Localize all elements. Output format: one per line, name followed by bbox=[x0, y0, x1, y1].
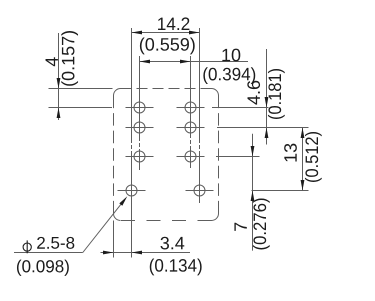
arrow 4 top bbox=[57, 78, 61, 89]
leader shelf bbox=[14, 252, 83, 254]
arrow 4.6 top bbox=[265, 97, 269, 108]
arrow 13 bottom bbox=[301, 180, 305, 191]
label 7 (rotated) bbox=[234, 223, 246, 231]
dim 13 line bbox=[302, 128, 304, 191]
hole P4 row2 right bbox=[177, 122, 205, 133]
dim 3.4 extension left bbox=[113, 221, 115, 258]
relay body outline (dashed rounded rect) bbox=[114, 89, 219, 221]
label (0.157) (rotated) bbox=[61, 31, 78, 86]
dim 7 line bbox=[252, 134, 254, 251]
arrow 10 right bbox=[180, 60, 191, 64]
row3 right extension bbox=[216, 156, 260, 158]
label (0.394) bbox=[203, 67, 255, 84]
arrow 10 left bbox=[140, 60, 151, 64]
dim 4 line bbox=[58, 33, 60, 120]
label (0.181) (rotated) bbox=[268, 69, 285, 119]
arrow 7 bottom bbox=[251, 191, 255, 202]
label 3.4 bbox=[160, 237, 184, 250]
hole P6 row3 right bbox=[177, 151, 205, 162]
arrow 3.4 left bbox=[103, 251, 114, 255]
hole P2 row1 right bbox=[177, 102, 205, 113]
dim 10 line bbox=[140, 61, 248, 63]
row1 right extension bbox=[212, 107, 269, 109]
dim 4.6 line bbox=[266, 49, 268, 145]
arrow 14.2 left bbox=[132, 31, 143, 35]
hole P8 row4 right bbox=[186, 185, 214, 196]
hole P3 row2 left bbox=[126, 122, 154, 133]
arrow 3.4 right bbox=[132, 251, 143, 255]
label 2.5-8 bbox=[37, 237, 74, 249]
dim 14.2 line bbox=[132, 32, 200, 34]
label (0.559) bbox=[140, 38, 195, 55]
centerline bottom-left hole column bbox=[131, 28, 133, 258]
label 10 bbox=[222, 49, 240, 62]
dim 3.4 line bbox=[101, 252, 132, 254]
label 4.6 (rotated) bbox=[247, 81, 260, 105]
centerline left pin column bbox=[139, 56, 141, 170]
label 14.2 bbox=[158, 17, 189, 30]
dim 3.4 tail bbox=[132, 252, 191, 254]
hole P7 row4 left bbox=[118, 185, 146, 196]
dim 4 reference top edge extension bbox=[49, 88, 113, 90]
leader line bbox=[83, 204, 122, 253]
arrow 4.6 bottom bbox=[265, 128, 269, 139]
label 4 (rotated) bbox=[46, 57, 58, 66]
centerline bottom-right hole column bbox=[199, 28, 201, 203]
row2 right extension bbox=[217, 127, 309, 129]
label (0.512) (rotated) bbox=[305, 132, 322, 182]
arrow 13 top bbox=[301, 128, 305, 139]
hole P1 row1 left bbox=[126, 102, 154, 113]
label (0.098) bbox=[17, 260, 69, 276]
dim 4 reference row1 left extension bbox=[49, 107, 113, 109]
label 13 (rotated) bbox=[284, 144, 297, 162]
arrow 4 bottom bbox=[57, 108, 61, 119]
row4 right extension bbox=[252, 190, 309, 192]
centerline right pin column bbox=[190, 56, 192, 168]
label phi symbol (diameter) bbox=[23, 240, 31, 253]
arrow 14.2 right bbox=[189, 31, 200, 35]
hole P5 row3 left bbox=[126, 151, 154, 162]
label (0.276) (rotated) bbox=[253, 199, 270, 250]
leader arrowhead bbox=[119, 196, 127, 205]
label (0.134) bbox=[150, 259, 202, 276]
arrow 7 top bbox=[251, 146, 255, 157]
